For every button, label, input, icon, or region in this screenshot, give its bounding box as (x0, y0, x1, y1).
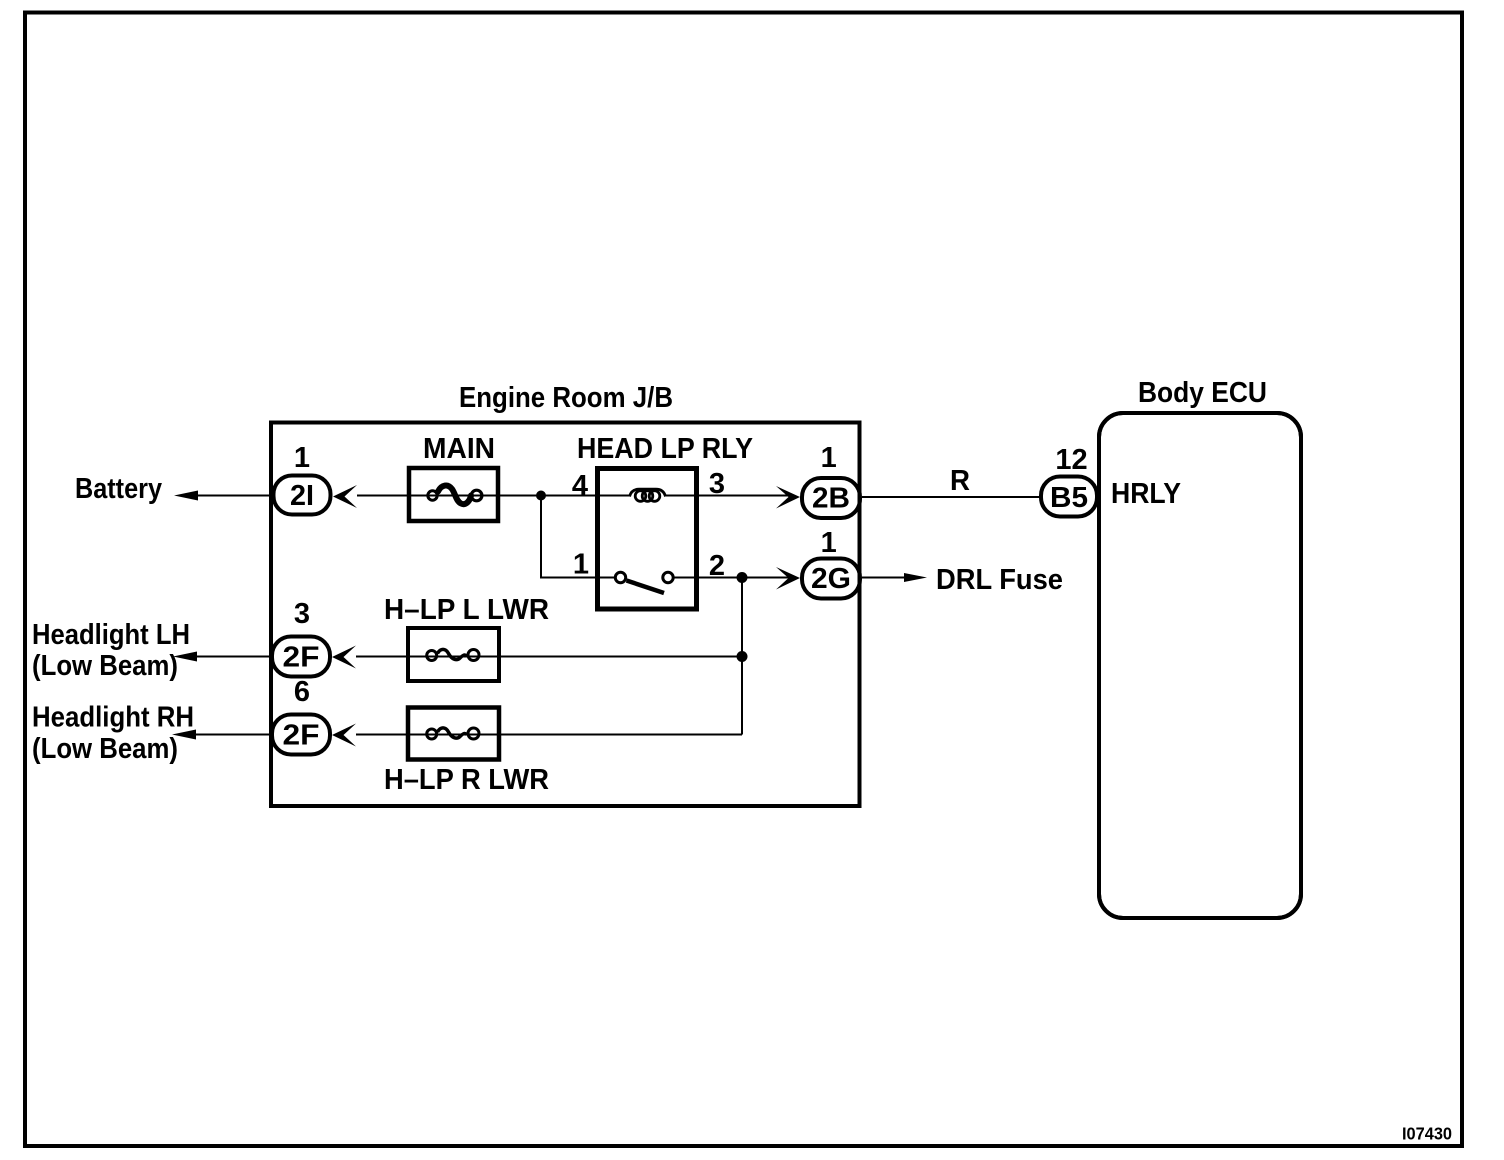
svg-text:Headlight LH: Headlight LH (32, 619, 190, 651)
svg-text:(Low Beam): (Low Beam) (32, 733, 178, 765)
connector 2F lower (272, 715, 330, 755)
node A junction after MAIN (536, 491, 546, 501)
wire 2I to MAIN fuse to node A (357, 495, 541, 497)
fuse H-LP R LWR box (408, 708, 499, 760)
wire relay coil pin 3 to 2B (666, 495, 790, 497)
fuse H-LP L LWR symbol (427, 649, 479, 660)
fuse H-LP R LWR symbol (427, 728, 479, 739)
notched arrow into 2G (776, 567, 800, 590)
arrowhead to Headlight RH (172, 730, 196, 740)
node B junction on pin 2 wire (737, 572, 748, 583)
svg-text:6: 6 (294, 676, 310, 708)
notched arrow into 2B (776, 486, 800, 509)
relay coil (630, 489, 666, 501)
wire 2B to B5, net R (862, 496, 1041, 498)
relay switch contacts (615, 572, 625, 582)
svg-text:Engine Room J/B: Engine Room J/B (459, 382, 673, 414)
arrowhead to Headlight LH (173, 652, 197, 662)
ECU border redrawn over connector B5 (1099, 413, 1301, 918)
junction block border redrawn over connector ovals (271, 423, 860, 807)
svg-text:2F: 2F (283, 642, 320, 674)
svg-text:3: 3 (294, 598, 310, 630)
svg-text:I07430: I07430 (1402, 1124, 1452, 1144)
svg-text:H–LP R LWR: H–LP R LWR (384, 764, 549, 796)
connector 2B (802, 478, 860, 518)
svg-text:(Low Beam): (Low Beam) (32, 650, 178, 682)
relay switch blade (627, 581, 665, 594)
svg-text:4: 4 (572, 470, 588, 502)
svg-text:MAIN: MAIN (423, 433, 495, 465)
svg-text:R: R (950, 465, 970, 497)
fusible link MAIN symbol (428, 485, 482, 504)
svg-text:HRLY: HRLY (1111, 478, 1181, 510)
svg-text:12: 12 (1055, 444, 1087, 476)
wire 2I to Battery (196, 495, 273, 497)
svg-text:Body ECU: Body ECU (1138, 377, 1267, 409)
connector 2G (802, 559, 860, 599)
relay HEAD LP RLY box (598, 469, 697, 610)
wire 2G to DRL Fuse (862, 577, 908, 579)
wire node B down to headlight rows (741, 578, 743, 735)
wire relay switch pin 2 to 2G (675, 577, 791, 579)
ECU box Body ECU (1099, 413, 1301, 918)
fusible link MAIN box (409, 468, 498, 521)
svg-text:Headlight RH: Headlight RH (32, 702, 194, 734)
svg-text:1: 1 (294, 442, 310, 474)
svg-text:2G: 2G (811, 563, 851, 595)
connector B5 (1041, 477, 1097, 517)
svg-text:3: 3 (709, 468, 725, 500)
svg-text:2B: 2B (812, 483, 850, 515)
notched arrow at 2I (333, 485, 357, 508)
arrowhead to DRL Fuse (904, 573, 927, 582)
svg-text:1: 1 (573, 549, 589, 581)
notched arrow at 2F upper (332, 646, 356, 669)
junction block Engine Room J/B box (271, 423, 860, 807)
connector 2F upper (272, 637, 330, 677)
wire 2F upper to Headlight LH (195, 656, 272, 658)
wire node A to relay coil pin 4 (541, 495, 630, 497)
svg-text:DRL Fuse: DRL Fuse (936, 564, 1063, 596)
svg-text:HEAD LP RLY: HEAD LP RLY (577, 433, 753, 465)
svg-text:2F: 2F (283, 720, 320, 752)
wire node A down to relay switch pin 1 (541, 496, 614, 578)
wire 2F lower through fuse to vertical wire (356, 734, 742, 736)
wire 2F upper through fuse to node C (356, 656, 742, 658)
svg-text:1: 1 (821, 527, 837, 559)
svg-text:H–LP L LWR: H–LP L LWR (384, 594, 549, 626)
notched arrow at 2F lower (332, 724, 356, 747)
connector 2I (274, 476, 331, 515)
svg-text:2I: 2I (290, 480, 314, 512)
wire 2F lower to Headlight RH (194, 734, 272, 736)
svg-text:Battery: Battery (75, 473, 162, 505)
fuse H-LP L LWR box (408, 628, 499, 681)
svg-text:1: 1 (821, 442, 837, 474)
svg-text:B5: B5 (1050, 482, 1088, 514)
node C junction on Headlight LH wire (737, 651, 748, 662)
arrowhead to Battery (174, 491, 198, 501)
